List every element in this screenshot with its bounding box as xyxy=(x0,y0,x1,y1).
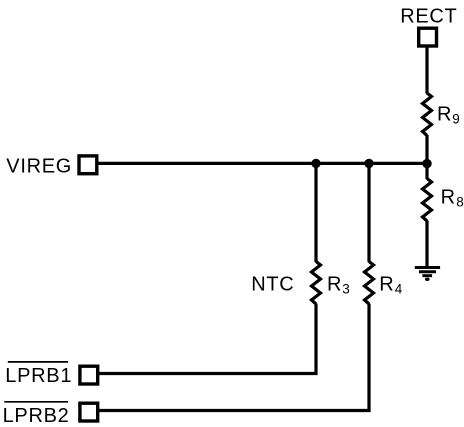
svg-text:8: 8 xyxy=(456,195,464,210)
svg-text:R: R xyxy=(441,187,456,209)
svg-text:R: R xyxy=(327,274,342,296)
svg-text:VIREG: VIREG xyxy=(6,155,72,177)
svg-text:3: 3 xyxy=(342,282,350,297)
svg-text:RECT: RECT xyxy=(400,5,457,27)
svg-text:R: R xyxy=(437,104,452,126)
svg-text:NTC: NTC xyxy=(251,273,294,295)
svg-text:LPRB1: LPRB1 xyxy=(5,365,72,387)
svg-text:LPRB2: LPRB2 xyxy=(3,405,70,427)
svg-text:9: 9 xyxy=(452,112,460,127)
svg-text:4: 4 xyxy=(395,282,403,297)
svg-text:R: R xyxy=(379,274,394,296)
